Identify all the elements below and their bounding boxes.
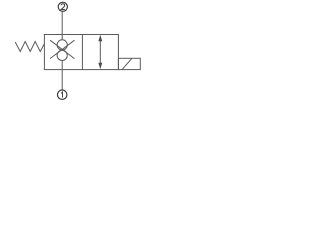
wire port 2 to valve	[61, 11, 63, 35]
blocked-path cross stroke 1	[50, 40, 75, 58]
valve body envelope	[44, 35, 118, 70]
solenoid diagonal	[122, 58, 132, 69]
port 2	[58, 2, 67, 11]
spring	[15, 42, 44, 52]
open position flow arrow shaft	[99, 40, 101, 65]
poppet stub upper	[61, 35, 63, 40]
port 1	[58, 90, 67, 99]
closed position poppet: lower ball	[57, 50, 67, 60]
blocked-path cross stroke 2	[50, 40, 75, 58]
solenoid coil	[118, 58, 140, 69]
wire valve to port 1	[61, 70, 63, 91]
arrowhead down	[98, 63, 102, 70]
closed position poppet: upper ball	[57, 40, 67, 50]
position divider	[81, 35, 83, 70]
arrowhead up	[98, 35, 102, 42]
poppet stub lower	[61, 61, 63, 70]
